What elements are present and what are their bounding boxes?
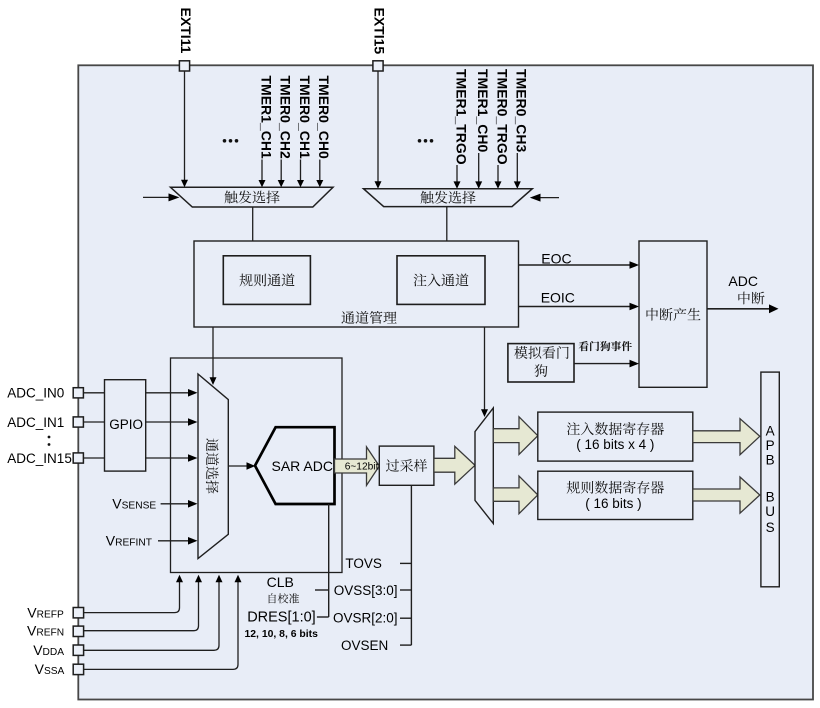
wire VREFN (84, 582, 199, 631)
block arrow demux to regular register (493, 476, 538, 514)
port square ADC_IN15 (73, 453, 83, 463)
ellipsis dots group 1 (223, 139, 239, 143)
svg-text:OVSS[3:0]: OVSS[3:0] (334, 583, 398, 598)
wire GPIO to mux row0 (146, 392, 189, 394)
channel selection mux 通道选择 (198, 374, 228, 559)
svg-text:EXTI15: EXTI15 (372, 8, 388, 55)
SAR ADC pentagon U1 (255, 427, 335, 504)
stub arrow into mux2 (540, 197, 559, 199)
injected channel box 注入通道 (397, 256, 485, 305)
wire TMER0_CH0 (319, 160, 321, 181)
svg-text:SAR ADC: SAR ADC (272, 458, 333, 474)
svg-text:TOVS: TOVS (345, 556, 382, 571)
wire GPIO to mux row1 (146, 421, 189, 423)
svg-text:CLB: CLB (267, 574, 294, 590)
port square ADC_IN0 (73, 388, 83, 398)
svg-text:OVSR[2:0]: OVSR[2:0] (333, 611, 398, 626)
svg-text:B: B (766, 489, 775, 504)
ellipsis dots group 2 (418, 139, 434, 143)
wire VDDA (84, 582, 219, 650)
block arrow regular register to APB (693, 477, 760, 513)
svg-text:B: B (766, 453, 775, 468)
block arrow demux to injected register (493, 417, 538, 455)
port square VSSA (73, 664, 83, 674)
block arrow oversampler to demux (434, 446, 475, 484)
block arrow injected register to APB (693, 419, 760, 455)
wire mux2 to injected channel (446, 207, 448, 249)
svg-text:TMER0_CH0: TMER0_CH0 (316, 76, 332, 159)
wire ADC interrupt output (707, 308, 770, 310)
svg-text:EOC: EOC (541, 251, 571, 267)
output demux (475, 408, 493, 524)
vertical ellipsis dots (48, 436, 51, 446)
wire ADC_IN15 to GPIO (83, 457, 104, 459)
regular data register box (538, 471, 693, 519)
wire ADC_IN1 to GPIO (83, 421, 104, 423)
svg-text:OVSEN: OVSEN (341, 638, 388, 653)
svg-text:P: P (766, 438, 775, 453)
channel management box 通道管理 (194, 241, 519, 327)
svg-text:ADC_IN0: ADC_IN0 (7, 386, 64, 401)
svg-text:TMER1_CH1: TMER1_CH1 (258, 76, 274, 159)
interrupt generation box 中断产生 (639, 241, 707, 387)
svg-text:TMER0_CH1: TMER0_CH1 (297, 76, 313, 159)
svg-text:TMER0_TRGO: TMER0_TRGO (494, 69, 510, 165)
wire VREFP (84, 582, 180, 613)
oversampler box 过采样 (379, 446, 434, 485)
wire EXTI15 to trigger mux 2 (377, 71, 379, 182)
svg-text:TMER1_CH0: TMER1_CH0 (475, 69, 491, 152)
svg-text:GPIO: GPIO (109, 417, 143, 432)
trigger mux 2 (trapezoid) (364, 189, 533, 207)
wire mux to SAR ADC (228, 465, 247, 467)
analog watchdog box 模拟看门狗 (508, 344, 574, 382)
injected data register box (538, 412, 693, 461)
wire management to output demux (484, 327, 486, 410)
wire mux1 to regular channel (252, 207, 254, 249)
label 看门狗事件 (579, 341, 632, 351)
wire VSSA (84, 582, 238, 669)
wire VREFINT to mux (158, 540, 189, 542)
svg-text:( 16 bits x 4 ): ( 16 bits x 4 ) (576, 437, 654, 452)
label 触发选择 mux1 (225, 191, 280, 204)
wire GPIO to mux row15 (146, 457, 189, 459)
svg-text:DRES[1:0]: DRES[1:0] (247, 609, 316, 625)
wire VSENSE to mux (161, 503, 189, 505)
svg-text:12, 10, 8, 6 bits: 12, 10, 8, 6 bits (245, 629, 319, 640)
wire TMER0_TRGO (497, 165, 499, 182)
wire TMER0_CH2 (280, 160, 282, 181)
regular channel box 规则通道 (223, 256, 310, 305)
svg-text:TMER0_CH3: TMER0_CH3 (514, 69, 530, 152)
svg-text:( 16 bits ): ( 16 bits ) (585, 496, 641, 511)
svg-text:EXTI11: EXTI11 (178, 8, 194, 54)
stub arrow into mux1 (143, 196, 169, 198)
label 触发选择 mux2 (421, 191, 476, 204)
trigger mux 1 (trapezoid) (171, 187, 334, 207)
svg-text:6~12bit: 6~12bit (345, 462, 379, 473)
wire EXTI11 to trigger mux 1 (184, 71, 186, 180)
wire management to channel mux (212, 327, 214, 378)
port square VREFN (73, 626, 83, 636)
wire watchdog event (574, 363, 631, 365)
svg-text:A: A (766, 424, 775, 439)
port square EXTI15 (373, 61, 383, 71)
svg-text:ADC_IN1: ADC_IN1 (7, 415, 64, 430)
sampling container box (171, 358, 343, 573)
block arrow 6~12bit SAR to oversampler (335, 447, 380, 485)
port square VREFP (73, 608, 83, 618)
svg-text:S: S (766, 520, 775, 535)
svg-text:EOIC: EOIC (541, 289, 575, 305)
wire CLB / DRES control (328, 504, 330, 617)
wire oversampling control (410, 485, 412, 645)
wire TMER0_CH3 (516, 153, 518, 182)
wire TMER0_CH1 (300, 160, 302, 181)
svg-text:U: U (765, 504, 775, 519)
label 通道管理 (341, 311, 396, 324)
port square EXTI11 (179, 61, 189, 71)
wire ADC_IN0 to GPIO (83, 392, 104, 394)
APB BUS box (761, 372, 779, 587)
wire TMER1_CH1 (261, 160, 263, 181)
svg-text:TMER0_CH2: TMER0_CH2 (278, 76, 294, 159)
port square ADC_IN1 (73, 417, 83, 427)
wire TMER1_CH0 (478, 153, 480, 182)
svg-text:ADC: ADC (728, 273, 758, 289)
GPIO box (105, 380, 146, 471)
svg-text:ADC_IN15: ADC_IN15 (7, 451, 72, 466)
svg-text:TMER1_TRGO: TMER1_TRGO (453, 69, 469, 165)
port square VDDA (73, 645, 83, 655)
wire TMER1_TRGO (456, 165, 458, 182)
